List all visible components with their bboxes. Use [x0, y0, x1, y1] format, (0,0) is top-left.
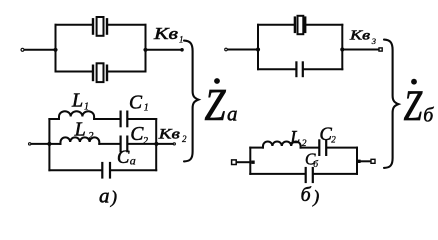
svg-text:3: 3 [371, 36, 376, 46]
svg-text:1: 1 [144, 102, 149, 113]
svg-text:2: 2 [88, 131, 94, 142]
svg-text:б: б [423, 104, 434, 126]
svg-text:1: 1 [84, 102, 89, 113]
svg-text:2: 2 [302, 139, 307, 149]
svg-text:Кв: Кв [153, 24, 178, 43]
svg-text:Кв: Кв [158, 126, 181, 142]
svg-text:a: a [227, 101, 238, 125]
svg-text:б: б [301, 184, 312, 206]
svg-text:L: L [71, 90, 83, 112]
svg-text:L: L [74, 119, 86, 141]
svg-text:): ) [312, 187, 319, 208]
svg-text:а: а [99, 183, 110, 207]
svg-text:L: L [289, 127, 300, 147]
svg-text:Z: Z [404, 83, 423, 130]
svg-text:Кв: Кв [349, 28, 370, 43]
svg-text:2: 2 [143, 136, 148, 147]
svg-text:C: C [117, 148, 130, 168]
svg-text:2: 2 [331, 134, 336, 144]
svg-text:2: 2 [182, 134, 187, 144]
svg-text:C: C [129, 93, 143, 114]
svg-text:): ) [110, 187, 117, 208]
svg-text:Z: Z [205, 79, 226, 130]
svg-text:a: a [130, 153, 136, 167]
svg-text:1: 1 [179, 34, 184, 44]
